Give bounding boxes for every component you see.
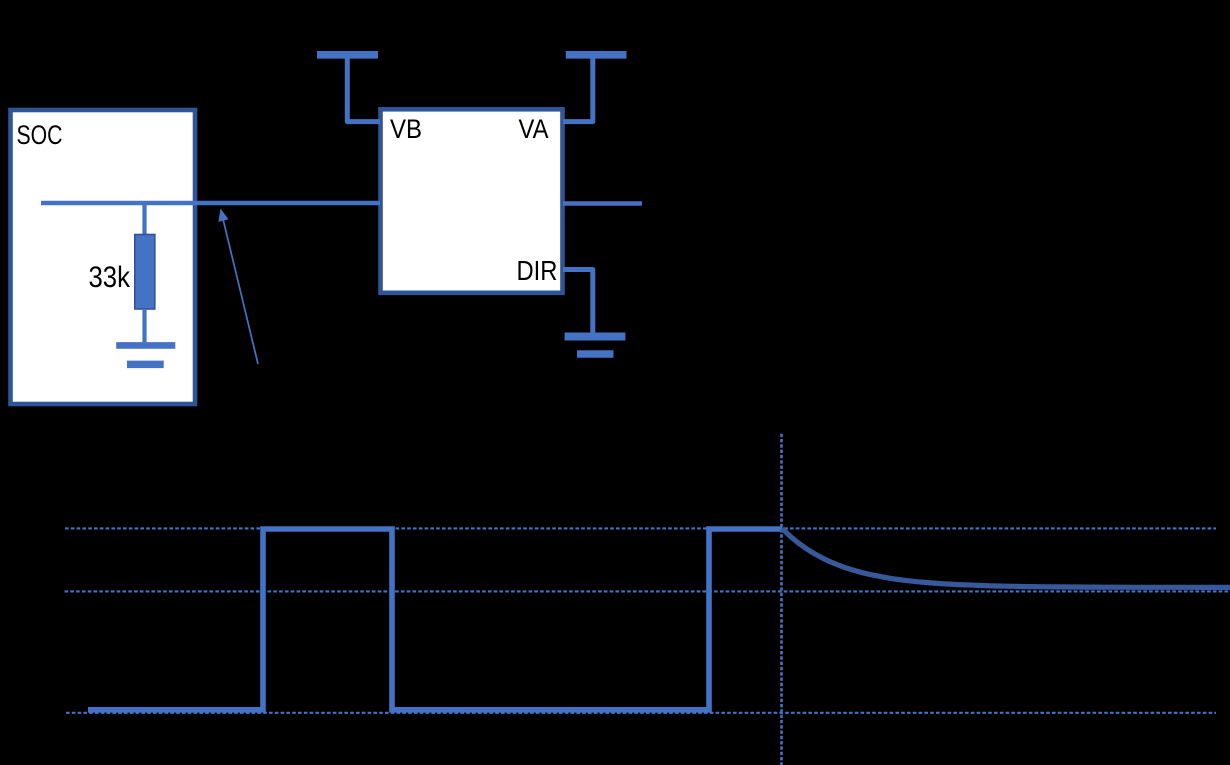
waveform trace: exponential decay after time marker bbox=[782, 529, 1230, 588]
power symbol VCC2 (above VA) bbox=[563, 55, 627, 122]
ground GND1 (under 33k resistor) bbox=[116, 345, 175, 364]
ground GND2 (DIR pin) bbox=[565, 337, 626, 355]
annotation arrow pointing at node B wire bbox=[218, 209, 258, 365]
dashed level line: settle (mid) level bbox=[65, 590, 1230, 592]
power symbol VCC1 (above VB) bbox=[317, 55, 380, 122]
dashed vertical time marker bbox=[780, 434, 783, 765]
resistor R 33k (body) bbox=[135, 235, 155, 310]
SOC block (box) bbox=[11, 110, 196, 404]
wire node A: U1 VA-side output bbox=[563, 201, 642, 206]
wire node B: SOC output to U1 VB-side input bbox=[41, 201, 380, 206]
wire: resistor top stem bbox=[142, 203, 146, 238]
svg-text:DIR: DIR bbox=[517, 255, 558, 286]
svg-text:VA: VA bbox=[519, 114, 549, 144]
IC U1 (box with VB / VA / DIR pins) bbox=[381, 109, 563, 292]
svg-text:33k: 33k bbox=[89, 261, 131, 294]
waveform trace: VB square wave bbox=[88, 529, 782, 710]
dashed level line: high level bbox=[65, 527, 1216, 529]
wire: DIR pin to ground bbox=[563, 270, 593, 335]
dashed level line: low level bbox=[66, 712, 1216, 714]
svg-text:SOC: SOC bbox=[17, 120, 63, 150]
svg-text:VB: VB bbox=[390, 114, 422, 144]
wire: resistor bottom stem bbox=[142, 309, 146, 345]
